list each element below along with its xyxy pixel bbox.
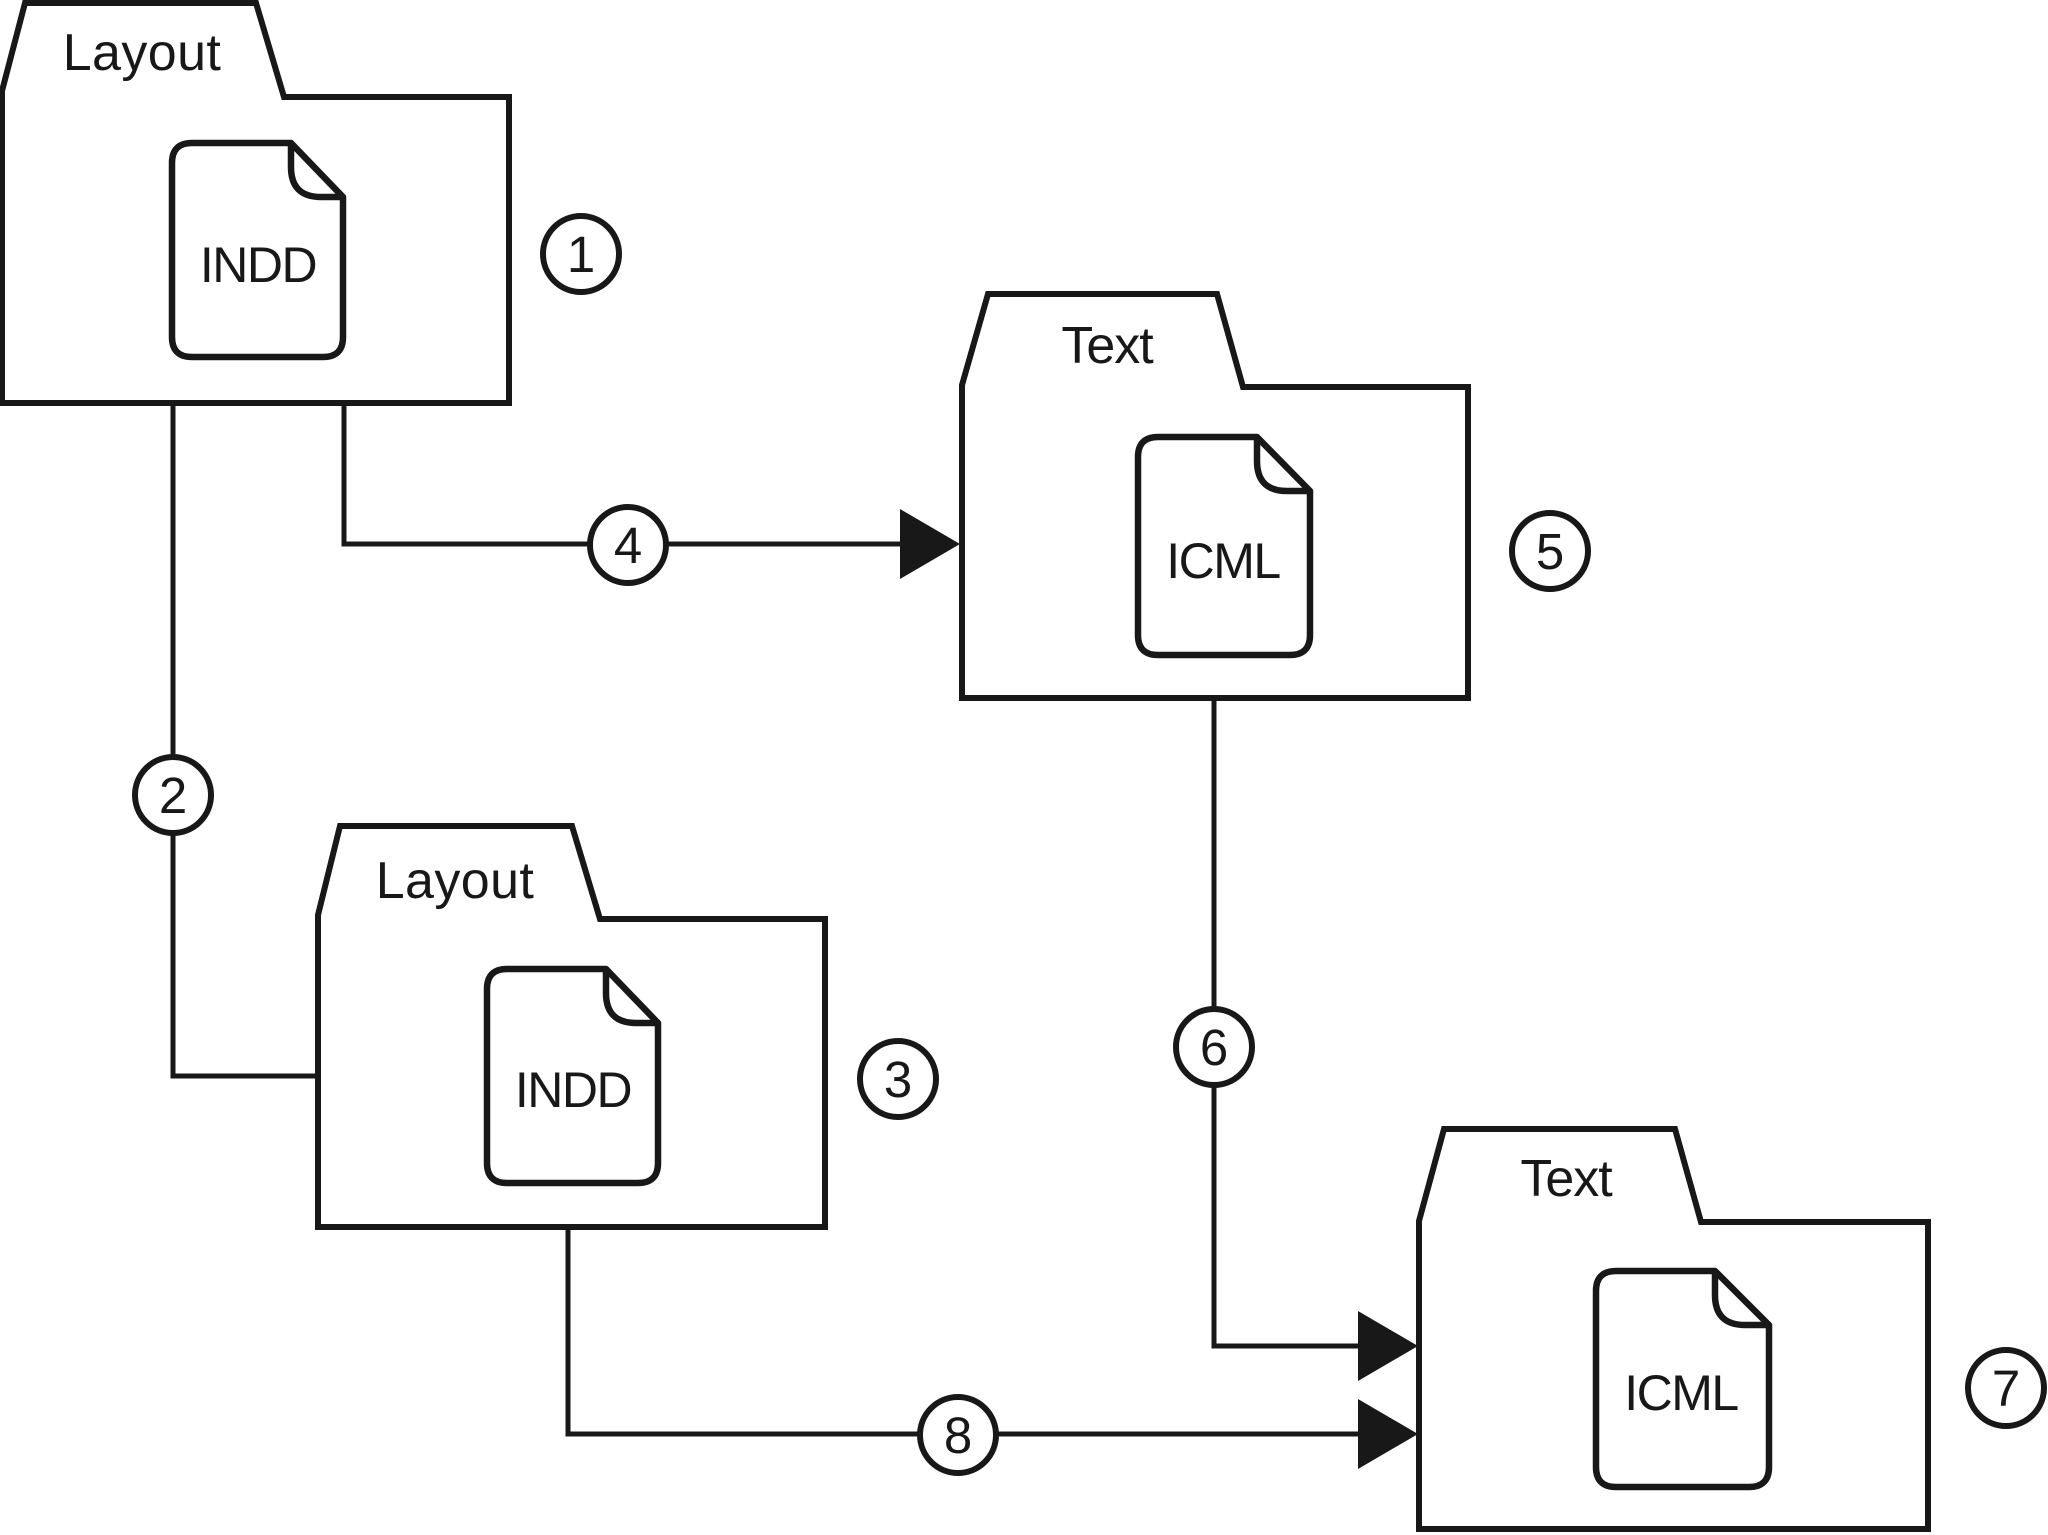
svg-text:1: 1 [567, 226, 595, 283]
folder 3 (Layout, middle) [318, 826, 825, 1227]
circle 8 [920, 1397, 996, 1473]
svg-text:INDD: INDD [515, 1062, 631, 1118]
document INDD fold flap [291, 146, 341, 197]
svg-text:Layout: Layout [376, 852, 535, 910]
document INDD fold flap (folder 3) [606, 972, 656, 1023]
circle 3 [860, 1041, 936, 1117]
circle 7 [1968, 1350, 2044, 1426]
svg-text:Layout: Layout [63, 24, 222, 82]
wire 6 (folder5 bottom to folder7 left) [1214, 698, 1360, 1346]
svg-text:3: 3 [884, 1051, 912, 1108]
arrowhead wire 8 [1358, 1399, 1418, 1469]
folder 1 (Layout, top-left) [2, 3, 509, 403]
wire 8 (folder3 bottom to folder7 left) [568, 1227, 1360, 1434]
svg-text:7: 7 [1992, 1360, 2020, 1417]
document ICML in folder 5 [1138, 437, 1310, 655]
wire 4 (folder1 bottom to folder5 left) [344, 403, 902, 544]
svg-text:6: 6 [1200, 1019, 1228, 1076]
svg-text:2: 2 [159, 767, 187, 824]
svg-text:INDD: INDD [200, 237, 316, 293]
document INDD in folder 3 [487, 969, 658, 1183]
circle 4 [590, 507, 666, 583]
svg-text:5: 5 [1536, 523, 1564, 580]
folder 7 (Text, bottom right) [1419, 1129, 1928, 1529]
circle 1 [543, 216, 619, 292]
arrowhead wire 4 [900, 509, 960, 579]
document ICML fold flap (folder 5) [1257, 440, 1308, 491]
folder 5 (Text, upper right) [962, 294, 1468, 698]
svg-text:Text: Text [1520, 1150, 1613, 1208]
svg-text:Text: Text [1061, 317, 1154, 375]
svg-text:8: 8 [944, 1407, 972, 1464]
wire 2 (folder1 bottom to folder3 left) [173, 403, 318, 1076]
svg-text:ICML: ICML [1624, 1365, 1738, 1421]
document INDD in folder 1 [172, 143, 343, 357]
document ICML in folder 7 [1596, 1271, 1769, 1487]
circle 5 [1512, 513, 1588, 589]
svg-text:ICML: ICML [1166, 533, 1280, 589]
circle 6 [1176, 1009, 1252, 1085]
document ICML fold flap (folder 7) [1715, 1274, 1767, 1325]
svg-text:4: 4 [614, 517, 642, 574]
arrowhead wire 6 [1358, 1311, 1418, 1381]
circle 2 [135, 757, 211, 833]
